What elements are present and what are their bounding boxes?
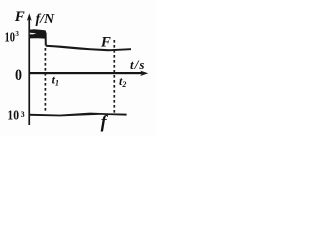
initial F segment block (0 to t1 at 1e3 level) — [29, 29, 46, 38]
svg-text:10: 10 — [5, 31, 16, 46]
y-axis arrowhead — [27, 13, 32, 21]
y-axis — [28, 18, 30, 125]
x-axis arrowhead — [140, 71, 148, 76]
x-axis — [29, 72, 142, 74]
t2 dashed vertical — [113, 40, 115, 113]
svg-text:3: 3 — [15, 30, 19, 38]
svg-text:10: 10 — [7, 109, 19, 124]
svg-text:t2: t2 — [119, 74, 126, 89]
svg-text:0: 0 — [15, 67, 22, 84]
svg-text:t/s: t/s — [130, 57, 146, 72]
t1 dashed vertical — [44, 48, 46, 113]
svg-text:F: F — [14, 9, 25, 25]
F line (t1 onward) — [46, 45, 131, 51]
f line (at -1e3 level) — [29, 113, 127, 117]
white notch inside initial segment block — [30, 33, 37, 35]
svg-text:F: F — [100, 34, 111, 50]
svg-text:t1: t1 — [52, 73, 59, 88]
svg-text:f/N: f/N — [36, 12, 56, 27]
svg-text:3: 3 — [21, 110, 25, 119]
step down at t1 — [45, 33, 47, 46]
